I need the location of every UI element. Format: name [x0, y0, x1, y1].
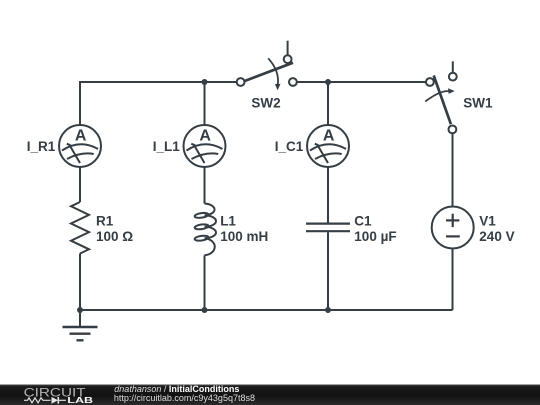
svg-text:100 µF: 100 µF	[354, 229, 396, 244]
SW1 bottom throw terminal	[449, 125, 457, 133]
svg-text:C1: C1	[354, 213, 372, 228]
wire branch2 top	[204, 82, 206, 125]
svg-text:SW2: SW2	[251, 96, 280, 111]
voltage source V1	[432, 207, 474, 249]
wire branch3 bottom	[327, 232, 329, 310]
switch SW1	[425, 61, 456, 133]
wire branch3 mid	[327, 167, 329, 223]
CircuitLab logo resistor zigzag	[24, 398, 51, 403]
svg-text:V1: V1	[479, 213, 496, 228]
svg-text:100 Ω: 100 Ω	[96, 229, 133, 244]
node at branch2 / bottom rail	[202, 307, 208, 313]
SW2 pole terminal	[237, 78, 245, 86]
node at branch2 / top rail	[202, 79, 208, 85]
ammeter I_R1	[59, 125, 101, 167]
svg-text:I_C1: I_C1	[275, 139, 304, 154]
svg-text:SW1: SW1	[463, 96, 493, 111]
svg-text:A: A	[75, 128, 87, 145]
svg-text:L1: L1	[220, 213, 236, 228]
svg-text:240 V: 240 V	[479, 229, 514, 244]
wire bottom rail	[80, 309, 453, 311]
svg-text:I_R1: I_R1	[27, 139, 56, 154]
node at ground / bottom rail	[77, 307, 83, 313]
wire branch2 mid	[204, 167, 206, 204]
wire branch1 bottom	[79, 254, 81, 311]
svg-text:100 mH: 100 mH	[220, 229, 268, 244]
svg-text:I_L1: I_L1	[153, 139, 181, 154]
svg-text:A: A	[199, 128, 211, 145]
ammeter I_L1	[184, 125, 226, 167]
switch SW2	[237, 41, 297, 91]
SW1 arrow	[425, 91, 448, 101]
capacitor C1	[306, 224, 350, 232]
svg-text:http://circuitlab.com/c9y43g5q: http://circuitlab.com/c9y43g5q7t8s8	[114, 393, 255, 403]
SW2 top throw stub	[287, 41, 289, 56]
node at branch3 / top rail	[325, 79, 331, 85]
footer bar	[0, 385, 540, 405]
SW2 arrow	[268, 58, 278, 85]
wire branch1 mid	[79, 167, 81, 202]
resistor R1	[71, 202, 89, 254]
SW1 pole terminal	[426, 78, 434, 86]
svg-text:R1: R1	[96, 213, 114, 228]
wire top rail left	[80, 82, 237, 125]
ammeter I_C1	[307, 125, 349, 167]
node at branch3 / bottom rail	[325, 307, 331, 313]
wire branch2 bottom	[204, 255, 206, 310]
SW1 blade	[434, 76, 451, 125]
SW1 right throw terminal	[449, 73, 457, 81]
wire V1 bottom	[452, 249, 454, 311]
inductor L1	[194, 204, 216, 256]
SW2 top throw terminal	[284, 55, 292, 63]
svg-text:LAB: LAB	[67, 396, 93, 405]
SW2 right throw terminal	[289, 78, 297, 86]
ground	[63, 310, 98, 340]
CircuitLab logo diode	[52, 397, 59, 404]
wire SW1 to V1	[452, 133, 454, 206]
svg-text:A: A	[323, 128, 335, 145]
wire branch3 top	[327, 82, 329, 125]
SW1 right throw stub	[452, 61, 454, 72]
wire top rail middle	[297, 81, 426, 83]
SW2 blade	[244, 63, 293, 81]
